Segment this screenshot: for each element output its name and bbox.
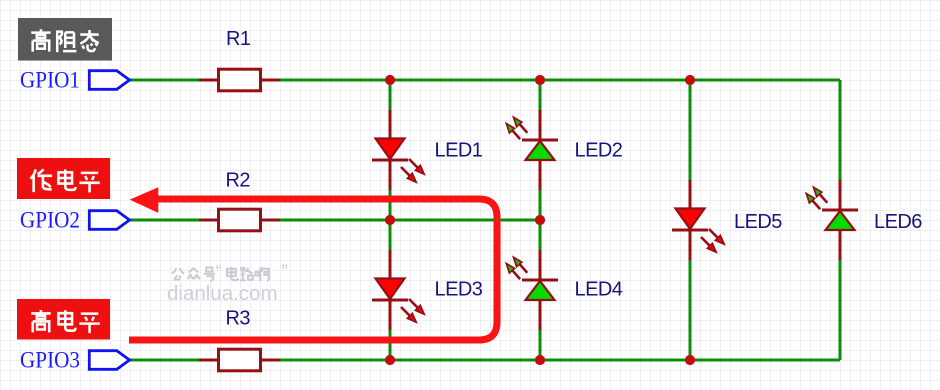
svg-text:“: “ [216, 262, 222, 283]
svg-text:R3: R3 [226, 308, 251, 330]
svg-text:GPIO1: GPIO1 [20, 68, 80, 94]
svg-text:GPIO2: GPIO2 [20, 208, 80, 234]
svg-text:dianlua.com: dianlua.com [167, 282, 278, 305]
svg-text:LED4: LED4 [575, 279, 623, 301]
svg-text:LED6: LED6 [874, 211, 922, 233]
svg-text:LED2: LED2 [575, 140, 623, 162]
svg-text:GPIO3: GPIO3 [20, 348, 80, 374]
svg-text:LED3: LED3 [435, 279, 483, 301]
svg-text:R1: R1 [226, 28, 251, 50]
svg-text:LED5: LED5 [734, 211, 782, 233]
svg-text:LED1: LED1 [435, 140, 483, 162]
svg-text:R2: R2 [226, 170, 251, 192]
svg-text:”: ” [282, 262, 288, 283]
